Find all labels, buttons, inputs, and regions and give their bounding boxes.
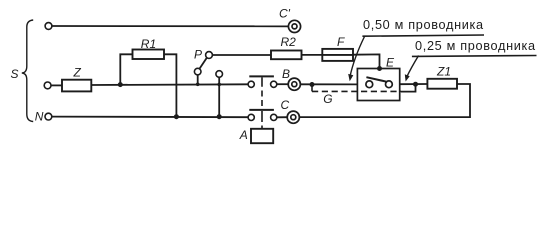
wire G tap drop <box>311 85 313 92</box>
enclosure switch E box <box>357 69 399 101</box>
terminal circle middle phase <box>44 82 51 89</box>
svg-text:C': C' <box>279 7 291 21</box>
contact lower bridge bar <box>249 109 274 111</box>
contact lower left circle <box>248 114 254 120</box>
wire to Z <box>51 84 62 86</box>
node P right stem crosses middle wire <box>217 83 221 87</box>
actuator A box <box>251 129 273 143</box>
leader arrow 0.50 <box>350 37 365 77</box>
svg-text:N: N <box>35 110 44 124</box>
switch E right contact <box>386 81 393 88</box>
svg-text:G: G <box>323 92 332 106</box>
wire E box to Z1 <box>400 83 428 85</box>
wire B to E box <box>300 83 357 85</box>
wire R1 right riser down to N wire <box>164 54 176 116</box>
svg-text:E: E <box>386 55 395 69</box>
wire contact to B <box>277 83 288 85</box>
wire Z to contact <box>91 83 248 86</box>
svg-text:0,50 м проводника: 0,50 м проводника <box>363 18 484 32</box>
wire N row <box>52 116 248 119</box>
svg-text:F: F <box>337 35 345 49</box>
node P stem on middle wire <box>196 83 200 87</box>
wire R2 row left <box>212 54 271 56</box>
switch E blade <box>366 77 387 82</box>
wire top row <box>52 25 289 27</box>
node P right stem on N wire <box>217 114 222 119</box>
wire contact to C <box>277 116 287 118</box>
node Z1 left junction <box>413 82 418 87</box>
switch E left contact <box>366 81 373 88</box>
terminal C bullseye <box>287 111 299 123</box>
resistor R2 <box>271 51 302 60</box>
node E box top <box>377 66 382 71</box>
switch P right contact <box>216 71 223 78</box>
wire P left post stem <box>197 75 199 84</box>
contact upper right circle <box>271 81 277 87</box>
fuse F <box>322 49 353 61</box>
underline 0.25 <box>412 55 537 58</box>
svg-text:R1: R1 <box>141 37 156 51</box>
terminal circle N <box>45 113 52 120</box>
wire R2 to F <box>302 54 323 56</box>
leader arrow 0.25 <box>407 56 419 78</box>
contact lower right circle <box>271 114 277 120</box>
resistor R1 <box>133 50 165 60</box>
svg-text:S: S <box>11 67 19 81</box>
wire F to E box corner <box>353 54 380 68</box>
brace S <box>22 20 33 122</box>
node G tap left <box>310 82 315 87</box>
contact upper left circle <box>248 81 254 87</box>
contact upper bridge bar <box>249 75 274 77</box>
svg-text:B: B <box>282 67 290 81</box>
terminal C' bullseye <box>288 20 300 32</box>
switch P top contact <box>206 52 213 59</box>
svg-text:C: C <box>281 98 290 112</box>
switch P blade <box>199 58 207 69</box>
svg-text:0,25 м проводника: 0,25 м проводника <box>415 39 536 53</box>
resistor Z <box>62 80 91 92</box>
wire P right contact down to N wire <box>218 77 220 116</box>
svg-text:P: P <box>194 47 202 61</box>
svg-text:A: A <box>239 128 248 142</box>
wire G right link to node <box>401 84 416 91</box>
svg-text:R2: R2 <box>281 35 297 49</box>
svg-text:Z: Z <box>73 66 82 80</box>
underline 0.50 <box>362 35 484 36</box>
switch P left post <box>194 68 201 75</box>
wire R1 left riser <box>120 54 132 84</box>
wire Z1 loop to C <box>299 84 470 117</box>
terminal B bullseye <box>288 78 300 90</box>
node R1 riser to N wire <box>174 114 179 119</box>
svg-text:Z1: Z1 <box>436 65 451 79</box>
node R1 left junction <box>118 82 123 87</box>
resistor Z1 <box>427 79 457 89</box>
wire G dashed link <box>312 90 401 92</box>
terminal circle top phase <box>45 23 52 30</box>
mech link dashed upper <box>261 77 263 128</box>
